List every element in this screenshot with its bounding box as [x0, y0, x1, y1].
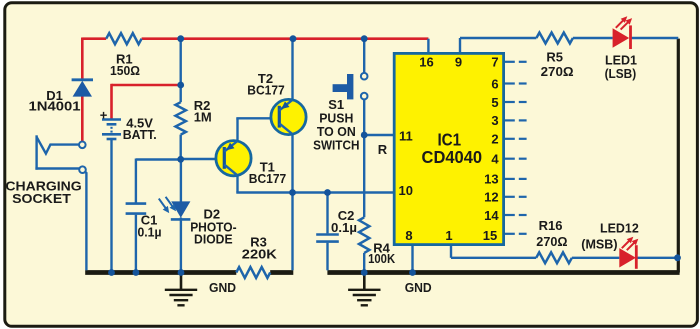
svg-text:2: 2 [491, 132, 498, 147]
svg-text:0.1µ: 0.1µ [138, 225, 162, 240]
svg-text:BC177: BC177 [247, 82, 285, 97]
svg-text:1M: 1M [194, 110, 212, 125]
svg-text:R16: R16 [539, 218, 563, 233]
svg-text:5: 5 [491, 95, 498, 110]
svg-text:(LSB): (LSB) [605, 66, 637, 81]
svg-text:3: 3 [491, 113, 498, 128]
svg-text:270Ω: 270Ω [541, 64, 574, 79]
svg-text:BATT.: BATT. [123, 127, 157, 142]
svg-text:150Ω: 150Ω [110, 63, 140, 78]
svg-text:6: 6 [491, 76, 498, 91]
svg-text:(MSB): (MSB) [581, 237, 617, 252]
svg-text:1: 1 [445, 228, 452, 243]
svg-text:16: 16 [419, 54, 433, 69]
svg-text:LED12: LED12 [600, 220, 639, 235]
svg-text:R: R [378, 142, 388, 157]
svg-text:SOCKET: SOCKET [12, 191, 71, 206]
svg-text:13: 13 [484, 172, 498, 187]
svg-text:4: 4 [491, 152, 499, 167]
svg-text:SWITCH: SWITCH [313, 137, 359, 152]
svg-text:R5: R5 [546, 50, 563, 65]
svg-text:8: 8 [405, 228, 412, 243]
svg-text:220K: 220K [242, 246, 278, 261]
svg-text:DIODE: DIODE [194, 231, 233, 246]
svg-text:14: 14 [484, 208, 499, 223]
svg-text:9: 9 [455, 54, 462, 69]
svg-text:GND: GND [209, 280, 236, 295]
svg-text:GND: GND [405, 280, 432, 295]
svg-text:BC177: BC177 [249, 171, 287, 186]
svg-text:7: 7 [491, 55, 498, 70]
svg-text:+: + [100, 108, 108, 123]
svg-text:100K: 100K [368, 251, 396, 266]
svg-text:LED1: LED1 [605, 52, 637, 67]
svg-text:10: 10 [399, 183, 413, 198]
svg-text:270Ω: 270Ω [536, 234, 567, 249]
svg-text:12: 12 [484, 190, 498, 205]
svg-text:CD4040: CD4040 [422, 147, 483, 167]
svg-text:0.1µ: 0.1µ [331, 220, 357, 235]
svg-text:15: 15 [483, 228, 497, 243]
svg-text:11: 11 [399, 129, 413, 144]
svg-text:1N4001: 1N4001 [29, 99, 81, 114]
